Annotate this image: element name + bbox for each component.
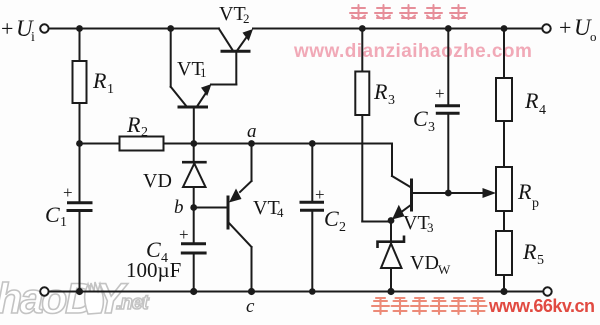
svg-text:1: 1 [60, 215, 67, 230]
svg-text:2: 2 [141, 125, 148, 140]
svg-text:a: a [247, 121, 257, 142]
svg-text:W: W [438, 262, 451, 277]
svg-text:i: i [31, 30, 35, 45]
svg-text:4: 4 [277, 205, 284, 220]
svg-text:C: C [413, 106, 428, 131]
svg-text:b: b [174, 197, 184, 218]
svg-text:+: + [63, 183, 73, 202]
svg-text:R: R [522, 239, 537, 264]
svg-text:c: c [246, 296, 255, 317]
svg-text:5: 5 [537, 253, 544, 268]
svg-text:www.dianziaihaozhe.com: www.dianziaihaozhe.com [293, 41, 532, 62]
svg-text:3: 3 [428, 120, 435, 135]
svg-text:1: 1 [107, 82, 114, 97]
svg-text:3: 3 [388, 93, 395, 108]
svg-text:+: + [435, 84, 445, 103]
svg-text:C: C [45, 202, 60, 227]
svg-text:2: 2 [243, 11, 250, 26]
svg-text:.net: .net [116, 292, 150, 314]
svg-text:www.66kv.cn: www.66kv.cn [488, 296, 595, 316]
svg-text:VT: VT [403, 212, 430, 234]
svg-text:R: R [92, 68, 107, 93]
svg-text:+: + [1, 16, 13, 41]
svg-text:R: R [524, 88, 539, 113]
svg-text:R: R [517, 179, 532, 204]
svg-text:VT: VT [219, 3, 246, 25]
svg-text:2: 2 [339, 220, 346, 235]
svg-text:VD: VD [410, 252, 439, 274]
svg-text:+: + [179, 225, 189, 244]
svg-text:1: 1 [200, 65, 207, 80]
svg-text:VD: VD [143, 170, 172, 192]
svg-text:+: + [315, 185, 325, 204]
svg-text:+: + [559, 15, 571, 40]
svg-text:haoD: haoD [0, 275, 95, 320]
svg-text:o: o [590, 29, 597, 44]
svg-text:R: R [126, 112, 141, 137]
svg-text:p: p [532, 196, 539, 211]
svg-text:4: 4 [539, 103, 546, 118]
svg-text:R: R [373, 79, 388, 104]
svg-text:3: 3 [427, 220, 434, 235]
svg-text:100µF: 100µF [126, 258, 181, 282]
svg-text:C: C [324, 206, 339, 231]
svg-text:VT: VT [253, 197, 280, 219]
